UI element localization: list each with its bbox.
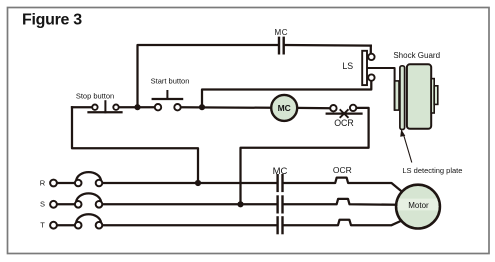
svg-text:T: T <box>40 221 45 230</box>
svg-text:MC: MC <box>273 166 288 177</box>
svg-text:Start button: Start button <box>151 77 190 86</box>
svg-text:MC: MC <box>274 28 288 37</box>
svg-text:R: R <box>40 178 46 187</box>
svg-text:Motor: Motor <box>408 201 429 210</box>
svg-text:OCR: OCR <box>334 118 354 128</box>
svg-text:LS: LS <box>342 61 353 71</box>
svg-text:Stop button: Stop button <box>76 91 114 100</box>
svg-text:LS detecting plate: LS detecting plate <box>402 166 462 175</box>
svg-text:OCR: OCR <box>333 165 352 175</box>
svg-text:Shock Guard: Shock Guard <box>393 51 440 60</box>
svg-text:MC: MC <box>278 103 291 113</box>
svg-text:S: S <box>40 200 45 209</box>
svg-text:Figure 3: Figure 3 <box>22 11 82 28</box>
